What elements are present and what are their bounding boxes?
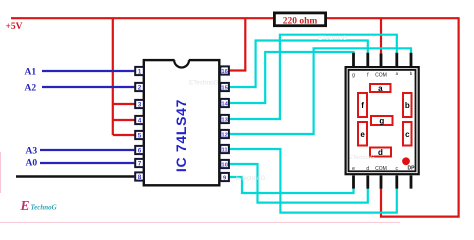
wire pin12 to segment b: [230, 48, 411, 134]
wire +5V rail left segment: [11, 17, 273, 19]
svg-text:16: 16: [221, 69, 228, 75]
wire pin9 to segment e: [230, 177, 354, 193]
svg-text:2: 2: [138, 85, 142, 92]
svg-text:e: e: [352, 166, 355, 172]
wire right edge vertical + bottom return to COM: [381, 17, 459, 216]
svg-text:A0: A0: [26, 159, 38, 169]
segment f: [358, 93, 367, 117]
svg-text:g: g: [352, 72, 355, 78]
svg-text:13: 13: [221, 118, 228, 124]
pin 1: [135, 67, 144, 76]
pink edge artifact left: [0, 152, 1, 193]
resistor R1 220 ohm: [274, 13, 325, 27]
svg-text:e: e: [360, 130, 365, 139]
wire +5V rail right segment: [327, 17, 459, 19]
segment a: [370, 84, 391, 93]
svg-text:11: 11: [222, 148, 229, 154]
svg-text:A3: A3: [26, 147, 38, 157]
svg-text:DP: DP: [408, 165, 416, 171]
svg-text:ETechnoG: ETechnoG: [189, 80, 219, 87]
op IC U1 74LS47 body: [144, 58, 220, 185]
wire rail to display COM top: [380, 18, 382, 54]
wire A3: [40, 149, 134, 151]
pin 5: [135, 131, 144, 140]
svg-text:14: 14: [221, 102, 228, 108]
svg-text:TechnoG: TechnoG: [31, 204, 57, 212]
svg-text:b: b: [405, 101, 410, 110]
svg-text:COM: COM: [375, 166, 387, 172]
pin 14: [220, 99, 229, 108]
wire ground pin8: [16, 175, 134, 177]
svg-text:a: a: [378, 84, 383, 93]
svg-text:10: 10: [221, 163, 227, 169]
svg-text:12: 12: [221, 133, 227, 139]
segment c: [403, 122, 412, 146]
pin 6: [135, 146, 144, 155]
wire red vertical to pins 3,4,5: [113, 18, 135, 136]
logo ETechnoG: [20, 198, 57, 213]
svg-text:g: g: [379, 117, 384, 126]
svg-text:6: 6: [138, 148, 142, 155]
wire pin15 to segment f: [230, 41, 368, 88]
pin 2: [135, 83, 144, 92]
wire VCC pin16 to rail: [230, 18, 246, 71]
pin 10: [220, 160, 229, 169]
display pins bottom e d COM c DP: [354, 176, 412, 189]
svg-text:+5V: +5V: [6, 22, 23, 32]
wire A0: [40, 162, 134, 164]
svg-text:5: 5: [138, 133, 142, 140]
svg-text:COM: COM: [375, 72, 387, 78]
pin 11: [220, 145, 229, 154]
pin 13: [220, 115, 229, 124]
svg-text:ETechnoG: ETechnoG: [318, 35, 348, 42]
wire pin11 to segment c: [230, 149, 397, 213]
pink edge artifact bottom: [0, 222, 400, 223]
svg-text:3: 3: [138, 102, 142, 109]
svg-text:220 ohm: 220 ohm: [283, 16, 318, 26]
pin 3: [135, 100, 144, 109]
pin 8: [135, 172, 144, 181]
segment g: [371, 116, 393, 126]
segment d: [370, 148, 391, 158]
svg-text:A1: A1: [25, 68, 37, 78]
svg-text:8: 8: [138, 174, 142, 181]
svg-text:4: 4: [138, 118, 142, 125]
pin 9: [220, 173, 229, 182]
pin 15: [220, 83, 229, 92]
svg-text:ETechnoG: ETechnoG: [349, 155, 375, 161]
svg-text:c: c: [405, 130, 410, 139]
segment b: [403, 93, 412, 117]
pin 7: [135, 159, 144, 168]
pin 12: [220, 130, 229, 139]
svg-text:7: 7: [138, 161, 142, 168]
svg-text:f: f: [361, 101, 364, 110]
svg-text:A2: A2: [25, 84, 37, 94]
svg-text:d: d: [378, 148, 383, 157]
wire pin10 to segment d: [230, 164, 368, 203]
svg-text:E: E: [20, 198, 30, 213]
svg-text:15: 15: [221, 86, 228, 92]
segment e: [358, 122, 367, 146]
wire pin14 to segment g: [230, 52, 354, 103]
segment DP dot: [402, 157, 410, 165]
svg-text:1: 1: [138, 69, 142, 76]
7-segment display DS1 body: [346, 67, 419, 174]
pin 4: [135, 116, 144, 125]
wire pin13 to segment a: [230, 35, 397, 119]
pin 16: [220, 66, 229, 75]
wire A1: [42, 70, 134, 72]
wire A2: [42, 86, 134, 88]
svg-text:ETechnoG: ETechnoG: [236, 175, 266, 182]
svg-text:d: d: [366, 166, 369, 172]
svg-text:IC 74LS47: IC 74LS47: [173, 99, 189, 172]
display pins top g f COM a b: [354, 53, 412, 66]
